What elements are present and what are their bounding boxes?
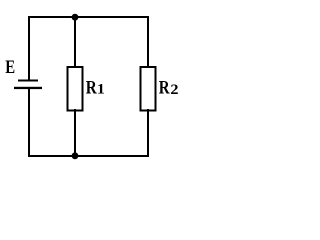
- svg-text:2: 2: [170, 82, 178, 98]
- wire middle upper (top junction to R1): [74, 17, 76, 67]
- wire top (node A, from left branch to right branch): [28, 16, 149, 18]
- resistor R2 (box): [141, 67, 156, 111]
- svg-text:R: R: [159, 77, 170, 98]
- battery E top plate (short): [18, 80, 38, 82]
- svg-text:E: E: [5, 56, 15, 77]
- wire left upper (top-left corner down to battery + plate): [28, 16, 30, 80]
- resistor R1 (box): [68, 67, 83, 111]
- wire bottom (node B, from left branch to right branch): [28, 155, 149, 157]
- wire left lower (battery to bottom wire): [28, 89, 30, 157]
- wire right upper (top-right corner to R2): [147, 16, 149, 68]
- junction dot top (node A): [72, 14, 79, 21]
- battery E bottom plate (long): [14, 87, 42, 89]
- svg-text:R: R: [86, 77, 97, 98]
- wire middle lower (R1 to bottom junction): [74, 109, 76, 157]
- svg-text:1: 1: [97, 81, 105, 97]
- junction dot bottom (node B): [72, 152, 79, 159]
- wire right lower (R2 to bottom-right corner): [147, 109, 149, 157]
